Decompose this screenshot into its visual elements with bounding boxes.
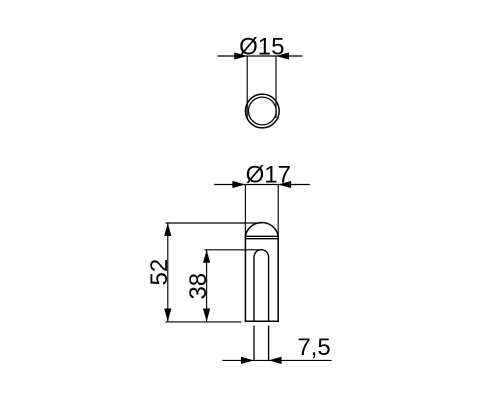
front view: collar seam upper line: [245, 235, 278, 237]
dim 38: top arrow: [203, 250, 210, 263]
front view: slot rounded top arc: [254, 250, 269, 257]
svg-text:7,5: 7,5: [297, 334, 330, 361]
svg-text:52: 52: [146, 259, 173, 286]
front view: dome cap arc: [245, 222, 278, 236]
dim Ø17: left arrow: [232, 181, 245, 188]
dim Ø17: right extension line: [277, 185, 279, 238]
dim 38: bottom arrow: [203, 309, 210, 322]
front view: slot right edge: [268, 257, 270, 321]
dim 52: bottom arrow: [164, 309, 171, 322]
front view: body left edge: [244, 236, 246, 321]
dim 7,5: right arrow: [269, 357, 282, 364]
dim Ø15: right arrow: [276, 52, 289, 59]
front view: body right edge: [277, 236, 279, 321]
dim 38: top extension line (to slot apex): [205, 249, 261, 251]
front view: pin left edge below body: [253, 326, 255, 361]
dim 52: top extension line (to dome apex): [166, 222, 263, 224]
top view: inner circle: [248, 97, 276, 125]
dim 38: dimension line: [206, 250, 208, 322]
dim 52+38: bottom extension line: [166, 321, 242, 323]
front view: slot left edge: [253, 257, 255, 321]
dim 7,5: left arrow: [241, 357, 254, 364]
front view: collar seam lower line: [245, 238, 278, 240]
dim Ø17: right arrow: [278, 181, 291, 188]
dim 52: top arrow: [164, 223, 171, 236]
dim Ø15: left arrow: [234, 52, 247, 59]
dim Ø15: right extension line: [275, 56, 277, 118]
svg-text:Ø17: Ø17: [246, 161, 291, 188]
svg-text:Ø15: Ø15: [239, 34, 284, 61]
front view: pin right edge below body: [268, 326, 270, 361]
top view: outer circle: [245, 94, 279, 128]
front view: body bottom edge: [245, 320, 279, 322]
dim Ø17: left extension line: [244, 185, 246, 238]
svg-text:38: 38: [185, 273, 212, 300]
dim Ø17: dimension line: [214, 184, 310, 186]
dim 52: dimension line: [167, 223, 169, 322]
dim 7,5: dimension line: [222, 359, 331, 361]
dim Ø15: dimension line: [217, 55, 302, 57]
dim Ø15: left extension line: [246, 56, 248, 118]
